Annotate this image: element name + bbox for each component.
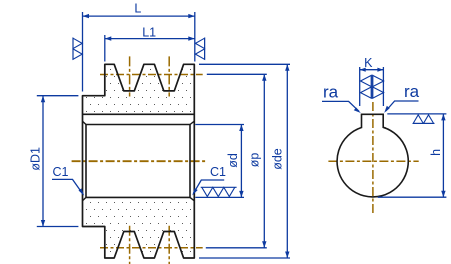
dimension oD1: extension lines xyxy=(37,96,79,227)
dimension L1: line xyxy=(105,38,195,40)
ra arrow left xyxy=(354,108,361,114)
svg-text:h: h xyxy=(429,149,443,156)
ra leader left xyxy=(322,101,359,111)
right view vertical centerline xyxy=(372,102,374,214)
bore chamfer top-left C1 xyxy=(83,121,87,124)
dimension K: arrows xyxy=(360,68,384,72)
dimension K: extension lines xyxy=(360,67,384,106)
svg-text:ra: ra xyxy=(404,82,420,101)
serration symbol on od extension xyxy=(201,187,237,196)
bore rectangle xyxy=(86,125,190,198)
dimension L: line xyxy=(83,15,195,17)
dimension ode: arrows xyxy=(285,64,289,258)
dimension L1: extension line xyxy=(104,35,106,62)
surface symbol inside K right xyxy=(373,75,384,98)
dimension L: extension lines xyxy=(83,12,195,92)
roughness triangles on h extension xyxy=(413,115,435,124)
dimension od: extension lines xyxy=(195,125,244,198)
dimension L1: arrows xyxy=(105,36,195,40)
pitch line bottom xyxy=(100,247,203,249)
surface symbol right of L xyxy=(195,38,204,60)
keyway slot bottom line (section) xyxy=(83,113,195,115)
pulley outer profile xyxy=(83,64,195,258)
C1 leader left xyxy=(52,179,83,194)
dimension oD1: arrows xyxy=(41,96,45,227)
dimension od: arrows xyxy=(239,125,243,198)
groove 2 centerline top xyxy=(168,56,170,96)
pitch line top xyxy=(100,74,203,76)
main horizontal centerline (axis) xyxy=(72,160,207,162)
dimension oD1: line xyxy=(42,96,44,227)
svg-text:ød: ød xyxy=(226,153,240,168)
right view horizontal centerline xyxy=(328,160,418,162)
svg-text:ra: ra xyxy=(323,82,339,101)
dimension od: line xyxy=(240,125,242,198)
svg-text:øD1: øD1 xyxy=(28,147,42,171)
svg-text:L1: L1 xyxy=(142,25,156,39)
svg-text:øde: øde xyxy=(271,148,285,170)
svg-text:C1: C1 xyxy=(53,165,69,179)
bore chamfer bottom-left C1 xyxy=(83,197,87,200)
dimension h: line xyxy=(442,114,444,197)
dimension ode: extension lines xyxy=(199,64,290,258)
svg-text:øp: øp xyxy=(248,153,262,168)
pulley section stipple fill xyxy=(83,64,195,258)
C1 leader right xyxy=(193,180,224,194)
bore chamfer top-right C1 xyxy=(190,121,194,124)
ra arrow right xyxy=(384,106,390,113)
dimension h: extension lines xyxy=(378,114,447,197)
dimension ode: line xyxy=(286,64,288,258)
ra leader right xyxy=(386,101,419,111)
dimension op: extension lines xyxy=(206,74,267,248)
groove 1 centerline bottom xyxy=(129,226,131,264)
svg-text:C1: C1 xyxy=(210,165,226,179)
dimension op: arrows xyxy=(262,74,266,248)
groove 2 centerline bottom xyxy=(168,226,170,264)
surface symbol inside K left xyxy=(361,75,372,98)
bore chamfer bottom-right C1 xyxy=(190,197,194,200)
svg-text:K: K xyxy=(364,56,373,70)
dimension op: line xyxy=(263,74,265,248)
right view: bore circle with keyway xyxy=(337,114,408,197)
dimension L: arrows xyxy=(83,14,195,18)
svg-text:L: L xyxy=(134,2,141,16)
dimension K: line xyxy=(360,69,384,71)
surface symbol left of L xyxy=(73,38,82,60)
C1 arrow right xyxy=(192,188,197,195)
dimension h: arrows xyxy=(441,114,445,197)
groove 1 centerline top xyxy=(129,56,131,96)
C1 arrow left xyxy=(79,188,85,195)
